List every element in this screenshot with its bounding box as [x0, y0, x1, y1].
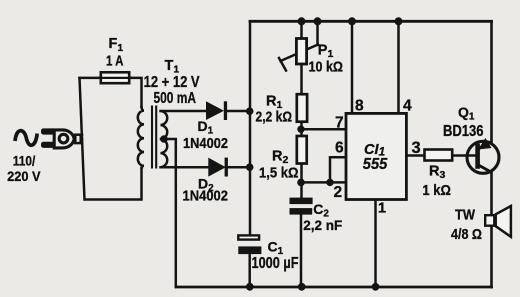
svg-text:1: 1	[378, 201, 386, 217]
svg-text:2,2 nF: 2,2 nF	[303, 217, 342, 233]
svg-text:BD136: BD136	[443, 123, 484, 140]
svg-text:1 kΩ: 1 kΩ	[422, 183, 451, 199]
svg-text:555: 555	[363, 156, 389, 173]
svg-text:500 mA: 500 mA	[154, 90, 197, 107]
svg-text:1000 µF: 1000 µF	[252, 255, 299, 272]
svg-text:2,2 kΩ: 2,2 kΩ	[256, 109, 293, 126]
svg-text:2: 2	[334, 184, 343, 201]
svg-text:110/: 110/	[13, 153, 36, 169]
svg-text:TW: TW	[455, 208, 475, 224]
svg-text:220 V: 220 V	[7, 168, 41, 184]
svg-text:1N4002: 1N4002	[183, 135, 228, 152]
svg-text:4/8 Ω: 4/8 Ω	[451, 227, 482, 243]
svg-text:4: 4	[403, 98, 412, 115]
svg-text:6: 6	[335, 140, 344, 157]
svg-text:1N4002: 1N4002	[183, 187, 229, 204]
svg-text:3: 3	[412, 139, 421, 157]
svg-text:1,5 kΩ: 1,5 kΩ	[259, 165, 299, 182]
svg-text:8: 8	[355, 98, 364, 115]
svg-text:10 kΩ: 10 kΩ	[309, 59, 344, 76]
svg-text:1 A: 1 A	[106, 53, 124, 70]
svg-text:7: 7	[335, 115, 344, 132]
svg-text:12 + 12 V: 12 + 12 V	[144, 74, 200, 91]
